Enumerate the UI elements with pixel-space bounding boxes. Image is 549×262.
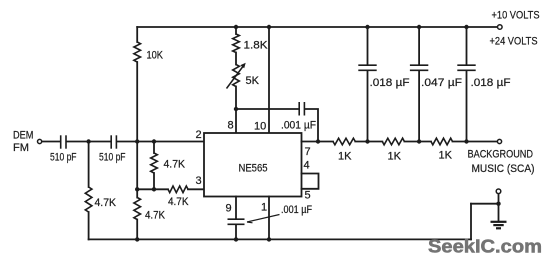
capacitor 510 pF #1 [50, 135, 77, 163]
wire pin 9 upper [235, 197, 237, 218]
node input-left column [135, 139, 139, 143]
wire pin 4 to pin 5 loop [302, 174, 319, 189]
wire node to ground [498, 204, 500, 221]
svg-text:1K: 1K [338, 151, 352, 163]
wire C2 to pin 2 [117, 141, 204, 143]
wire pin3 row left [137, 188, 168, 190]
wire 4.7K mid column upper [153, 142, 155, 154]
input terminal DEM FM [13, 130, 42, 155]
wire 1K2 to 1K3 [404, 141, 431, 143]
svg-text:.018 µF: .018 µF [370, 77, 410, 89]
svg-text:NE565: NE565 [239, 163, 268, 175]
svg-text:1: 1 [261, 202, 267, 214]
capacitor 510 pF #2 [99, 135, 126, 163]
capacitor .001 uF (VCO) [281, 102, 316, 132]
svg-text:8: 8 [228, 120, 234, 132]
resistor 4.7K (left column lower) [134, 198, 166, 222]
wire supply branch x=367.5 lower [367, 71, 369, 141]
svg-text:SeekIC.com: SeekIC.com [428, 237, 542, 257]
node input-4.7K [86, 139, 90, 143]
wire left column (4.7K to bottom rail) [136, 220, 138, 240]
IC U1 NE565 PLL [204, 133, 302, 197]
svg-text:BACKGROUND: BACKGROUND [468, 149, 534, 161]
node top rail / cap1 branch [365, 25, 369, 29]
resistor 4.7K (vertical mid) [151, 153, 186, 173]
wire 4.7K input shunt column lower [88, 212, 90, 239]
svg-text:.001 µF: .001 µF [281, 204, 312, 216]
wire pin 7 row [302, 141, 334, 143]
supply terminal +10/+24 VOLTS [490, 10, 540, 48]
wire 1.8K to 5K [235, 53, 237, 65]
node top rail / cap2 branch [417, 25, 421, 29]
capacitor .047 uF [410, 65, 462, 89]
resistor 4.7K (series pin 3) [168, 186, 189, 208]
ground return terminal [496, 189, 501, 204]
ground [491, 222, 507, 229]
node top rail / cap3 branch [464, 25, 468, 29]
wire C1 to C2 [67, 141, 111, 143]
svg-text:3: 3 [196, 175, 202, 187]
svg-text:10: 10 [254, 121, 266, 133]
node 5K-pin8 [234, 107, 238, 111]
wire supply branch x=419.1 lower [418, 71, 420, 141]
svg-text:.047 µF: .047 µF [421, 77, 462, 89]
svg-text:5K: 5K [246, 75, 260, 87]
node bottom-left column [135, 237, 139, 241]
wire timing column top rail to 1.8K [235, 27, 237, 34]
node 1K-3 [464, 139, 468, 143]
wire bottom rail [89, 238, 471, 240]
resistor 1K #3 [431, 138, 453, 161]
svg-text:4.7K: 4.7K [145, 210, 166, 222]
wire left column (input row to pin3 row) [136, 142, 138, 190]
svg-text:1K: 1K [439, 150, 453, 162]
resistor 1K #2 [382, 138, 404, 162]
node top rail / pin10 [267, 25, 271, 29]
resistor 10K [134, 42, 164, 62]
node top rail / 1.8K [234, 25, 238, 29]
svg-text:MUSIC (SCA): MUSIC (SCA) [472, 163, 535, 175]
wire supply branch x=466.5 upper [466, 27, 468, 64]
potentiometer 5K [227, 63, 260, 89]
svg-text:510 pF: 510 pF [50, 152, 77, 164]
svg-text:1.8K: 1.8K [244, 40, 269, 52]
node pin3 row left [135, 187, 139, 191]
wire input terminal to C 510pF #1 [42, 141, 60, 143]
wire pin3 row right [188, 188, 204, 190]
node ground junction [496, 202, 500, 206]
svg-text:.018 µF: .018 µF [471, 77, 511, 89]
svg-text:DEM: DEM [13, 130, 34, 142]
svg-text:4.7K: 4.7K [95, 197, 117, 209]
wire cap to pin7 branch corner [305, 109, 318, 142]
capacitor .018 uF [358, 65, 409, 89]
wire pin 1 to bottom rail [268, 197, 270, 240]
wire pin 10 column [268, 27, 270, 133]
svg-text:10K: 10K [147, 50, 164, 62]
wire 4.7K input shunt column upper [88, 142, 90, 188]
wire left column (pin3 row to 4.7K) [136, 189, 138, 197]
wire 5K to node row [235, 87, 237, 110]
node 1K-1 [365, 139, 369, 143]
capacitor .001 uF (pin 9) [228, 204, 313, 224]
svg-text:2: 2 [196, 129, 202, 141]
node bottom-pin9 [234, 237, 238, 241]
node 1K-2 [417, 139, 421, 143]
resistor 1K #1 [333, 138, 355, 162]
wire supply branch x=367.5 upper [367, 27, 369, 64]
svg-text:4.7K: 4.7K [164, 159, 186, 171]
resistor 4.7K (input shunt) [85, 187, 116, 212]
svg-text:7: 7 [305, 146, 311, 158]
wire 1K3 to output terminal [453, 141, 497, 143]
wire pin 9 lower to bottom rail [235, 225, 237, 239]
wire left column (10K to input row) [136, 62, 138, 142]
node bottom-pin1 [267, 237, 271, 241]
wire supply branch x=419.1 upper [418, 27, 420, 64]
svg-text:5: 5 [305, 190, 311, 202]
svg-text:510 pF: 510 pF [99, 152, 126, 164]
svg-text:.001 µF: .001 µF [281, 120, 316, 132]
wire left column upper (top rail to 10K) [136, 27, 138, 42]
svg-text:4.7K: 4.7K [168, 196, 189, 208]
svg-text:9: 9 [226, 203, 232, 215]
svg-text:FM: FM [13, 142, 29, 154]
capacitor .018 uF [457, 65, 510, 89]
node pin3 row mid [152, 187, 156, 191]
svg-text:+10 VOLTS: +10 VOLTS [492, 10, 540, 22]
svg-text:1K: 1K [388, 151, 402, 163]
wire ground row [471, 203, 499, 205]
wire top supply rail [137, 26, 497, 28]
wire supply branch x=466.5 lower [466, 71, 468, 141]
wire 4.7K mid column lower [153, 173, 155, 189]
svg-text:4: 4 [304, 160, 310, 172]
wire bottom rail riser [470, 204, 472, 240]
wire pin 8 [235, 109, 237, 133]
svg-text:+24 VOLTS: +24 VOLTS [490, 36, 538, 48]
resistor 1.8K [233, 34, 268, 53]
wire 1K1 to 1K2 [355, 141, 382, 143]
wire node row pins 8-10 [236, 108, 299, 110]
node input-4.7K mid [152, 139, 156, 143]
node pin7-.001 [316, 139, 320, 143]
output terminal BACKGROUND MUSIC (SCA) [468, 139, 535, 175]
